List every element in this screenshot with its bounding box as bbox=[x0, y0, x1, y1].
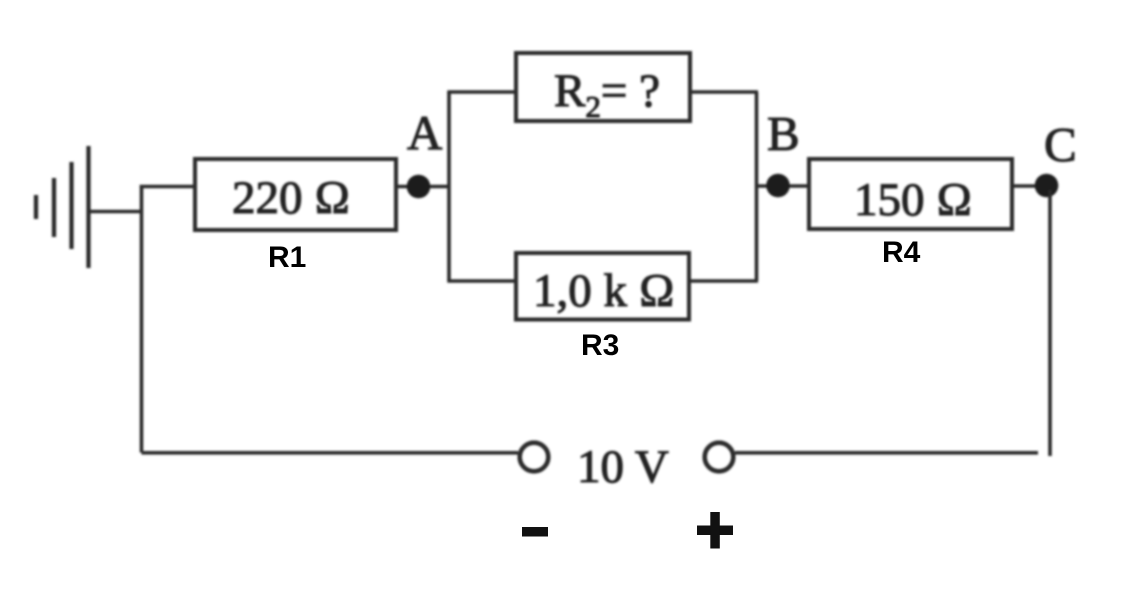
svg-text:A: A bbox=[407, 105, 443, 160]
battery terminal right bbox=[705, 443, 734, 472]
wire R4 to node C bbox=[1012, 184, 1050, 188]
svg-text:R1: R1 bbox=[268, 241, 306, 274]
node A bbox=[407, 175, 431, 199]
wire node B stub bbox=[757, 184, 810, 188]
battery minus sign bbox=[522, 527, 548, 537]
resistor R2 bbox=[516, 53, 690, 121]
svg-text:220 Ω: 220 Ω bbox=[232, 172, 350, 224]
battery plus sign bbox=[697, 512, 733, 549]
node C bbox=[1035, 174, 1059, 198]
svg-text:B: B bbox=[767, 106, 800, 161]
svg-text:C: C bbox=[1044, 117, 1077, 172]
svg-text:10 V: 10 V bbox=[577, 441, 669, 493]
wire parallel right vertical bbox=[755, 92, 759, 281]
resistor R4 bbox=[809, 159, 1012, 229]
svg-text:R3: R3 bbox=[581, 329, 619, 362]
wire R1 to node A bbox=[396, 185, 449, 189]
wire top branch right bbox=[690, 90, 758, 94]
wire bottom branch left bbox=[447, 279, 516, 283]
svg-text:150 Ω: 150 Ω bbox=[854, 174, 972, 226]
wire right vertical bbox=[1048, 190, 1052, 456]
wire bottom left bbox=[142, 451, 519, 455]
wire parallel left vertical bbox=[447, 92, 451, 281]
wire ground to R1 bbox=[140, 185, 195, 189]
wire top branch left bbox=[447, 90, 516, 94]
svg-text:1,0 k Ω: 1,0 k Ω bbox=[533, 265, 675, 317]
node B bbox=[766, 174, 790, 198]
battery terminal left bbox=[520, 443, 549, 472]
wire left vertical bbox=[140, 185, 144, 453]
svg-text:R2= ?: R2= ? bbox=[554, 65, 660, 124]
resistor R1 bbox=[195, 159, 396, 230]
ground bbox=[36, 146, 142, 268]
svg-text:R4: R4 bbox=[882, 236, 921, 269]
resistor R3 bbox=[516, 253, 689, 320]
wire bottom right bbox=[735, 451, 1038, 455]
wire bottom branch right bbox=[689, 279, 758, 283]
